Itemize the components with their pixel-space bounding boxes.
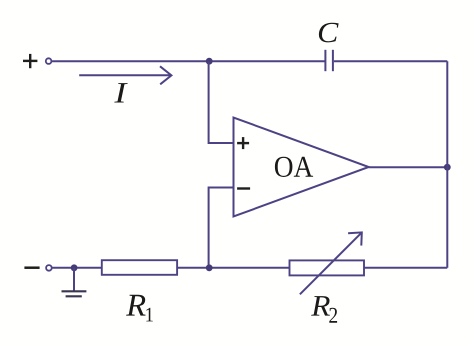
resistor R2	[290, 260, 365, 275]
wire top left (terminal to capacitor)	[52, 60, 325, 62]
label R2-R	[311, 296, 330, 316]
variable resistor arrow R2	[300, 232, 362, 294]
wire right rail	[446, 61, 448, 268]
wire R2 to right rail	[364, 267, 447, 269]
label OA	[275, 157, 313, 177]
junction node top	[206, 58, 213, 65]
wire bottom left (terminal to R1)	[52, 267, 102, 269]
junction node ground	[71, 264, 78, 271]
capacitor C plates	[325, 50, 333, 71]
op-amp noninverting + symbol	[237, 137, 249, 149]
resistor R1	[102, 260, 177, 275]
junction node output on right rail	[444, 164, 451, 171]
current arrow I	[79, 66, 171, 84]
wire vertical + noninverting input	[209, 61, 234, 143]
label R2-sub2	[329, 308, 337, 323]
label C	[319, 23, 339, 43]
label I	[114, 83, 127, 102]
label R1-sub1	[146, 308, 153, 322]
wire op-amp output	[369, 166, 448, 168]
wire inverting input down to bottom node	[209, 188, 234, 268]
terminal circle top	[46, 58, 52, 64]
terminal circle bottom	[46, 265, 52, 271]
junction node bottom	[206, 264, 213, 271]
terminal minus sign (negative input)	[24, 266, 39, 269]
op-amp OA triangle	[234, 118, 369, 217]
wire top right (capacitor to right rail)	[334, 60, 447, 62]
label R1-R	[126, 295, 146, 316]
terminal plus sign (positive input)	[23, 54, 37, 68]
ground symbol	[62, 268, 87, 297]
op-amp inverting - symbol	[237, 187, 250, 189]
wire between R1 and R2	[177, 267, 289, 269]
